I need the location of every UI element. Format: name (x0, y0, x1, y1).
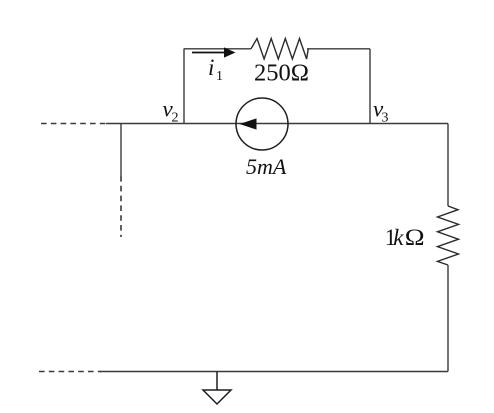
wire vertical stub below bus (solid part) (120, 124, 122, 177)
svg-text:250Ω: 250Ω (254, 60, 309, 87)
wire top left segment (184, 48, 251, 50)
ground (203, 372, 231, 405)
node v2 label (163, 97, 179, 126)
label 5mA (246, 154, 287, 179)
resistor 1k ohm zigzag vertical (438, 206, 459, 265)
label i1 (208, 55, 223, 84)
wire left vertical of top loop (183, 49, 185, 124)
svg-text:3: 3 (382, 111, 389, 126)
svg-text:i: i (208, 55, 214, 80)
wire main horizontal bus v2-v3 (106, 123, 448, 125)
current source arrow head (pointing left) (240, 118, 257, 129)
current arrow i1 (192, 47, 236, 57)
wire vertical stub dashed continuation (120, 176, 122, 237)
current source 5mA circle (236, 98, 288, 150)
svg-text:2: 2 (172, 111, 179, 126)
wire right branch lower vertical (447, 265, 449, 372)
svg-text:1: 1 (216, 69, 223, 84)
wire top right segment (307, 48, 370, 50)
wire dashed left stub of bottom bus (39, 371, 101, 373)
node v3 label (373, 97, 389, 126)
svg-text:5mA: 5mA (246, 154, 287, 179)
wire bottom bus (100, 371, 448, 373)
wire right vertical of top loop (369, 49, 371, 124)
svg-text:Ω: Ω (405, 226, 425, 251)
label 1k ohm value (385, 225, 425, 251)
label 250 ohm value (254, 60, 309, 87)
svg-text:k: k (393, 225, 404, 250)
resistor 250 ohm zigzag (251, 39, 308, 60)
wire dashed left stub of main bus (41, 123, 107, 125)
wire right branch upper vertical (447, 124, 449, 207)
